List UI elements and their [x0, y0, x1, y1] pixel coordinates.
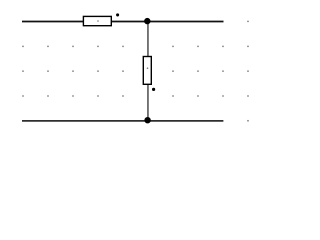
wire: vertical from top node to R2 — [147, 21, 149, 57]
row y=46 — [22, 46, 24, 48]
row y=71 — [22, 70, 24, 72]
row y=121 right edge — [247, 120, 249, 122]
label dot of R1 — [116, 13, 119, 16]
wire: vertical from R2 to bottom node — [147, 84, 149, 121]
row y=96 — [22, 95, 24, 97]
wire: top rail — [22, 21, 224, 23]
row y=21 right edge — [247, 21, 249, 23]
junction node top — [144, 18, 150, 24]
resistor R2 (vertical IEC box) — [143, 57, 151, 85]
junction node bottom — [144, 117, 150, 123]
resistor R1 (horizontal IEC box) — [83, 16, 111, 25]
label dot of R2 — [152, 88, 155, 91]
grid dots (background) — [22, 21, 249, 122]
wire: bottom rail — [22, 120, 223, 122]
